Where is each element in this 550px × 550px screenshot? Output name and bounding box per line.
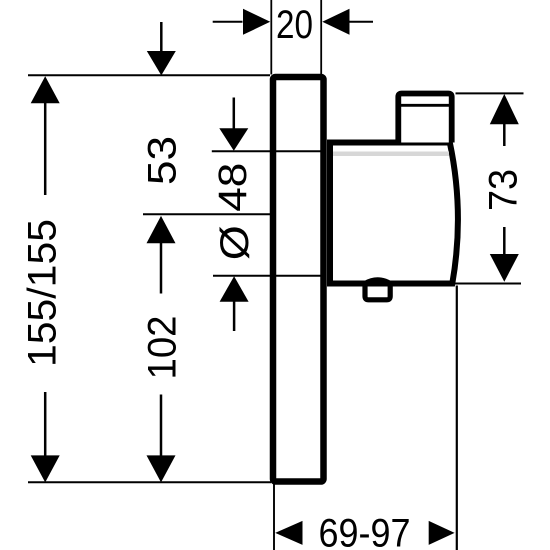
- dim 102: lower stem: [160, 395, 163, 457]
- svg-text:Ø: Ø: [213, 225, 257, 260]
- outlet spout (bottom tab of valve body): [365, 280, 390, 300]
- dim 53: outside stem above plate top: [160, 22, 163, 52]
- extension line: body bottom right (y=283.5): [453, 283, 521, 285]
- dim 20: left leader stem: [213, 21, 243, 23]
- dim O48: arrow pointing down to cartridge top: [219, 128, 248, 150]
- dim O48: arrow pointing up to cartridge bottom: [220, 276, 249, 302]
- dim 69-97: left arrow: [275, 521, 302, 545]
- svg-text:53: 53: [141, 136, 185, 185]
- wall plate: [273, 77, 324, 482]
- extension line: body rear for 69-97 (x=458): [456, 286, 458, 550]
- extension line: plate top right (x=321): [320, 0, 322, 75]
- svg-text:48: 48: [211, 163, 255, 212]
- dim 20: left arrow: [243, 9, 270, 35]
- dim 102: bottom arrow: [147, 455, 176, 482]
- extension line: cartridge top (y=151): [212, 150, 321, 152]
- svg-text:20: 20: [276, 3, 313, 47]
- extension line: plate top left (x=271): [270, 0, 272, 75]
- dim 155/155: upper stem: [44, 102, 47, 195]
- extension line: centre line (y=214): [143, 213, 273, 215]
- dim 155/155: lower stem: [44, 392, 47, 456]
- extension line: plate bottom level (y=482): [28, 481, 271, 483]
- valve body: [330, 143, 458, 284]
- dim 73: bottom arrow: [490, 254, 519, 282]
- dim 73: lower stem: [503, 227, 506, 255]
- svg-text:155/155: 155/155: [21, 219, 65, 367]
- dim 73: top arrow: [490, 94, 519, 124]
- dim O48: stem below: [233, 301, 236, 331]
- extension line: plate top level (y=75): [28, 74, 270, 76]
- extension line: cartridge bottom (y=276): [213, 275, 321, 277]
- extension line: handle top (y=93): [456, 92, 524, 94]
- extension line: plate front for 69-97 (x=275): [273, 484, 275, 550]
- handle: [398, 94, 451, 143]
- dim 69-97: right arrow: [429, 521, 455, 545]
- dim 102: upper stem: [160, 242, 163, 293]
- dim 20: right leader stem: [350, 21, 374, 23]
- dim 20: right arrow: [322, 9, 349, 35]
- handle cap seam: [401, 104, 450, 107]
- svg-text:73: 73: [482, 169, 526, 211]
- dim 155/155: top arrow: [31, 76, 60, 103]
- valve body bottom edge over outlet: [329, 281, 452, 287]
- dim O48: stem above: [233, 98, 236, 130]
- dim 155/155: bottom arrow: [31, 455, 60, 482]
- faint cartridge seam inside body: [333, 152, 449, 157]
- dim 102: top arrow pointing up to centre line: [147, 216, 176, 243]
- svg-text:102: 102: [141, 316, 185, 380]
- dim 73: upper stem: [503, 123, 506, 146]
- dim 53: outside arrow pointing down to plate top: [147, 51, 176, 75]
- svg-text:69-97: 69-97: [319, 512, 411, 550]
